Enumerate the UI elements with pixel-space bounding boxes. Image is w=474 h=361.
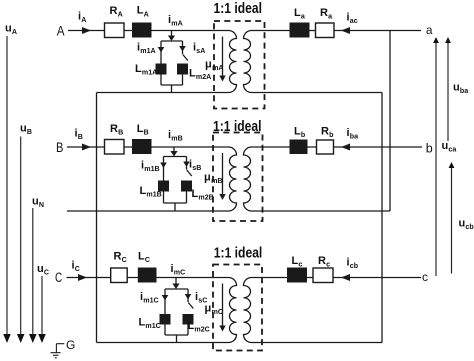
svg-text:B: B xyxy=(56,139,63,155)
svg-text:B: B xyxy=(78,133,83,141)
svg-text:A: A xyxy=(118,11,123,19)
svg-text:b: b xyxy=(426,141,433,155)
svg-text:u: u xyxy=(32,196,39,208)
svg-text:R: R xyxy=(318,255,326,267)
svg-text:u: u xyxy=(37,263,44,275)
svg-text:A: A xyxy=(57,23,65,39)
svg-text:a: a xyxy=(301,13,305,21)
svg-text:ac: ac xyxy=(350,17,358,25)
svg-text:m2A: m2A xyxy=(196,73,211,81)
svg-text:C: C xyxy=(75,265,80,273)
svg-text:A: A xyxy=(12,28,17,36)
svg-text:c: c xyxy=(326,261,330,269)
svg-text:m1C: m1C xyxy=(145,322,160,330)
svg-text:C: C xyxy=(122,256,127,264)
svg-text:μ: μ xyxy=(204,172,211,184)
svg-text:1:1 ideal: 1:1 ideal xyxy=(214,246,262,262)
svg-text:a: a xyxy=(328,13,332,21)
svg-text:B: B xyxy=(118,128,123,136)
svg-text:mC: mC xyxy=(212,308,223,316)
svg-text:cb: cb xyxy=(350,262,359,270)
svg-text:ca: ca xyxy=(448,146,456,154)
svg-text:C: C xyxy=(55,270,62,285)
svg-text:G: G xyxy=(66,338,75,352)
svg-text:μ: μ xyxy=(205,303,212,315)
svg-text:m1C: m1C xyxy=(143,297,158,305)
svg-text:1:1 ideal: 1:1 ideal xyxy=(214,1,263,17)
svg-text:mB: mB xyxy=(211,177,222,185)
svg-text:B: B xyxy=(144,128,149,136)
svg-text:C: C xyxy=(44,269,49,277)
svg-text:m1A: m1A xyxy=(140,47,155,55)
svg-text:sA: sA xyxy=(196,47,205,55)
svg-text:mC: mC xyxy=(174,269,185,277)
svg-text:cb: cb xyxy=(465,223,474,231)
svg-text:b: b xyxy=(301,131,306,139)
svg-text:u: u xyxy=(453,82,460,94)
svg-text:m1B: m1B xyxy=(144,165,159,173)
svg-text:c: c xyxy=(422,270,428,284)
svg-text:m1B: m1B xyxy=(146,191,161,199)
svg-text:u: u xyxy=(5,23,12,35)
svg-text:m2C: m2C xyxy=(194,326,209,334)
svg-text:u: u xyxy=(442,140,449,152)
svg-text:1:1 ideal: 1:1 ideal xyxy=(213,119,262,135)
svg-text:R: R xyxy=(110,123,118,135)
svg-text:A: A xyxy=(144,10,149,18)
svg-text:u: u xyxy=(20,123,27,135)
svg-text:m1A: m1A xyxy=(142,69,157,77)
svg-text:ba: ba xyxy=(350,133,358,141)
svg-text:mA: mA xyxy=(212,64,223,72)
svg-text:a: a xyxy=(426,24,433,37)
svg-text:mB: mB xyxy=(171,135,182,143)
svg-text:C: C xyxy=(145,256,150,264)
svg-text:B: B xyxy=(27,128,32,136)
svg-text:R: R xyxy=(321,126,329,138)
svg-text:R: R xyxy=(110,5,118,17)
svg-text:m2B: m2B xyxy=(198,194,213,202)
svg-text:R: R xyxy=(320,7,328,19)
svg-text:sB: sB xyxy=(192,164,201,172)
svg-text:mA: mA xyxy=(171,20,182,28)
svg-text:c: c xyxy=(298,261,302,269)
svg-text:ba: ba xyxy=(460,87,468,95)
svg-text:A: A xyxy=(81,16,86,24)
svg-text:b: b xyxy=(329,131,334,139)
svg-text:R: R xyxy=(114,251,122,263)
svg-text:N: N xyxy=(39,201,44,209)
svg-text:μ: μ xyxy=(205,59,212,71)
svg-text:u: u xyxy=(459,218,466,230)
